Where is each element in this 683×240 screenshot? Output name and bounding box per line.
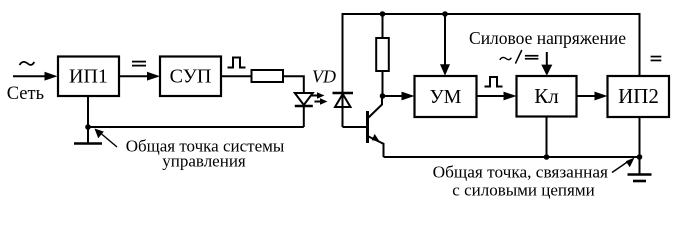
junction collector node: [380, 93, 386, 99]
wire: ИП1 to СУП with arrowhead: [119, 72, 160, 81]
control common point symbol: [74, 127, 102, 144]
optocoupler light arrow 1: [312, 92, 325, 99]
block УМ (power amplifier): [415, 76, 477, 117]
block СУП (control pulse shaper): [160, 57, 221, 97]
callout arrow to control common: [95, 129, 118, 148]
control common rail: [88, 126, 304, 128]
svg-text:УМ: УМ: [430, 86, 462, 108]
power ground symbol: [628, 157, 652, 181]
wire: ИП1 bottom to control common: [87, 96, 89, 127]
svg-text:ИП2: ИП2: [618, 84, 659, 108]
junction at control common: [85, 124, 91, 130]
LED of optocoupler VD: [295, 93, 313, 127]
callout arrow to power common: [612, 158, 635, 173]
wire: collector node to УМ with arrowhead: [383, 92, 415, 101]
label: Общая точка системы управления: [126, 137, 285, 171]
wire: mains input into ИП1 with arrowhead: [13, 72, 58, 81]
svg-text:ИП1: ИП1: [69, 66, 108, 88]
AC tilde symbol (mains): [20, 62, 35, 65]
junction Кл/common: [544, 154, 550, 160]
transistor collector: [368, 96, 383, 119]
wire: УМ to Кл with arrowhead: [477, 92, 517, 101]
label: Общая точка, связанная с силовыми цепями: [433, 163, 608, 200]
power common rail: [384, 156, 640, 158]
wire: Кл bottom to power common: [546, 117, 548, 158]
wire: top rail down to ИП2: [639, 14, 641, 76]
svg-text:СУП: СУП: [170, 66, 212, 88]
svg-text:Общая точка, связанная: Общая точка, связанная: [433, 163, 608, 182]
pulse symbol after УМ: [485, 77, 503, 87]
junction on top rail (УМ feed branch): [442, 11, 448, 17]
junction on top rail (resistor branch): [380, 11, 386, 17]
block ИП2 (power supply 2): [608, 76, 670, 117]
svg-text:управления: управления: [162, 152, 246, 171]
wire: photodiode to transistor base: [343, 126, 367, 128]
power feed arrow into Кл: [541, 52, 552, 76]
top supply rail: [342, 13, 641, 15]
DC symbol "=" after ИП1: [132, 61, 146, 67]
wire: Кл to ИП2 with arrowhead: [577, 92, 608, 101]
pulse symbol after СУП: [228, 58, 246, 68]
photodiode of optocoupler: [333, 14, 354, 127]
resistor (LED series): [252, 70, 284, 82]
svg-text:VD: VD: [312, 67, 336, 87]
wire: ИП2 bottom to power common: [639, 117, 641, 157]
transistor VT (opto receiver) base bar: [366, 111, 369, 143]
svg-text:Сеть: Сеть: [7, 84, 44, 104]
transistor emitter with arrow: [368, 134, 384, 157]
block ИП1 (power supply 1): [58, 57, 119, 97]
wire: resistor to LED anode (corner): [283, 76, 304, 92]
junction ИП2/common: [637, 154, 643, 160]
DC symbol "=" at ИП2 output: [651, 56, 662, 62]
svg-text:Кл: Кл: [534, 84, 559, 108]
wire: top rail feed into УМ with arrowhead: [440, 14, 450, 76]
svg-text:Силовое напряжение: Силовое напряжение: [469, 28, 626, 48]
svg-text:с силовыми цепями: с силовыми цепями: [452, 181, 594, 200]
pull-up resistor branch: [376, 14, 389, 96]
block Кл (switch): [517, 76, 577, 117]
wire: СУП to resistor R: [221, 75, 252, 77]
optocoupler light arrow 2: [315, 98, 328, 105]
label: ~ / =: [500, 57, 512, 59]
